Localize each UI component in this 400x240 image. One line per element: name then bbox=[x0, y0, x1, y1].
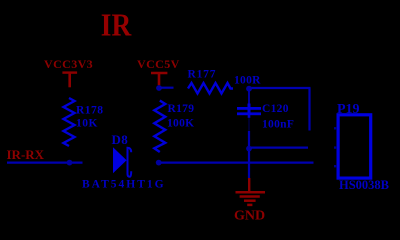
ground bbox=[236, 178, 266, 205]
wire GND vertical bbox=[248, 151, 250, 179]
svg-text:HS0038B: HS0038B bbox=[339, 178, 389, 192]
pin 3 bbox=[334, 165, 337, 167]
svg-text:100R: 100R bbox=[234, 75, 261, 87]
node junction diode cathode bbox=[156, 160, 162, 166]
resistor R178 bbox=[64, 98, 75, 146]
wire from VCC5V node right bbox=[161, 87, 174, 89]
pin 1 bbox=[334, 127, 337, 129]
wire IR-RX bus bbox=[7, 162, 83, 164]
svg-text:C120: C120 bbox=[262, 103, 289, 115]
svg-text:IR: IR bbox=[101, 7, 132, 43]
svg-text:VCC5V: VCC5V bbox=[137, 57, 180, 71]
svg-text:GND: GND bbox=[234, 208, 265, 223]
wire R177 node to right corner bbox=[252, 87, 311, 89]
svg-text:P19: P19 bbox=[337, 102, 360, 117]
power symbol VCC5V bbox=[151, 73, 167, 85]
resistor R177 bbox=[188, 83, 233, 94]
wire cap node to right bbox=[251, 147, 308, 149]
svg-text:10K: 10K bbox=[76, 118, 98, 130]
svg-text:R179: R179 bbox=[168, 103, 195, 115]
svg-text:100nF: 100nF bbox=[262, 119, 294, 131]
node junction VCC5V bbox=[156, 85, 162, 91]
node junction after R177 bbox=[246, 86, 252, 92]
svg-text:VCC3V3: VCC3V3 bbox=[44, 57, 93, 71]
svg-text:BAT54HT1G: BAT54HT1G bbox=[82, 179, 166, 191]
node junction cap bottom bbox=[246, 146, 252, 152]
svg-text:D8: D8 bbox=[112, 132, 129, 147]
svg-text:100K: 100K bbox=[167, 118, 194, 130]
wire vertical down right side bbox=[308, 88, 310, 131]
svg-text:R177: R177 bbox=[188, 69, 217, 81]
node junction at R178/bus bbox=[67, 160, 73, 166]
svg-text:R178: R178 bbox=[76, 105, 104, 117]
power symbol VCC3V3 bbox=[62, 73, 77, 88]
wire cathode bus to right bbox=[161, 162, 314, 164]
capacitor C120 bbox=[237, 91, 261, 149]
pin 2 bbox=[334, 146, 337, 148]
connector P19 bbox=[338, 115, 371, 178]
diode D8 bbox=[113, 147, 131, 177]
resistor R179 bbox=[154, 101, 165, 153]
svg-text:IR-RX: IR-RX bbox=[7, 147, 45, 162]
